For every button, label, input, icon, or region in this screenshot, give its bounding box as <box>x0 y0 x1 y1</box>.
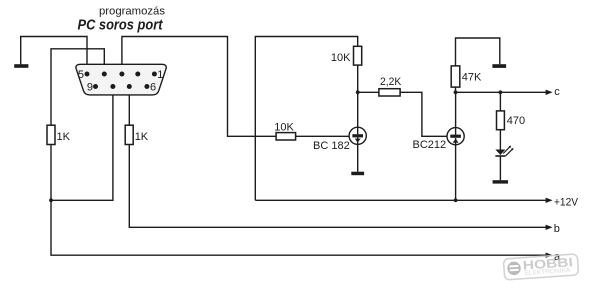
svg-text:470: 470 <box>507 115 525 127</box>
svg-text:programozás: programozás <box>99 6 166 18</box>
svg-text:BC 182: BC 182 <box>313 140 350 152</box>
svg-text:2,2K: 2,2K <box>380 76 402 88</box>
svg-text:1K: 1K <box>57 131 71 143</box>
svg-text:b: b <box>554 223 560 235</box>
svg-text:10K: 10K <box>274 121 294 133</box>
svg-text:5: 5 <box>78 69 84 81</box>
svg-text:6: 6 <box>150 82 156 94</box>
svg-text:+12V: +12V <box>554 197 579 209</box>
svg-text:1K: 1K <box>135 131 149 143</box>
svg-text:BC212: BC212 <box>413 139 447 151</box>
svg-text:47K: 47K <box>462 72 482 84</box>
svg-text:10K: 10K <box>331 52 351 64</box>
svg-text:9: 9 <box>87 82 93 94</box>
svg-text:c: c <box>554 86 560 98</box>
svg-text:PC soros port: PC soros port <box>78 17 164 33</box>
svg-text:1: 1 <box>157 69 163 81</box>
